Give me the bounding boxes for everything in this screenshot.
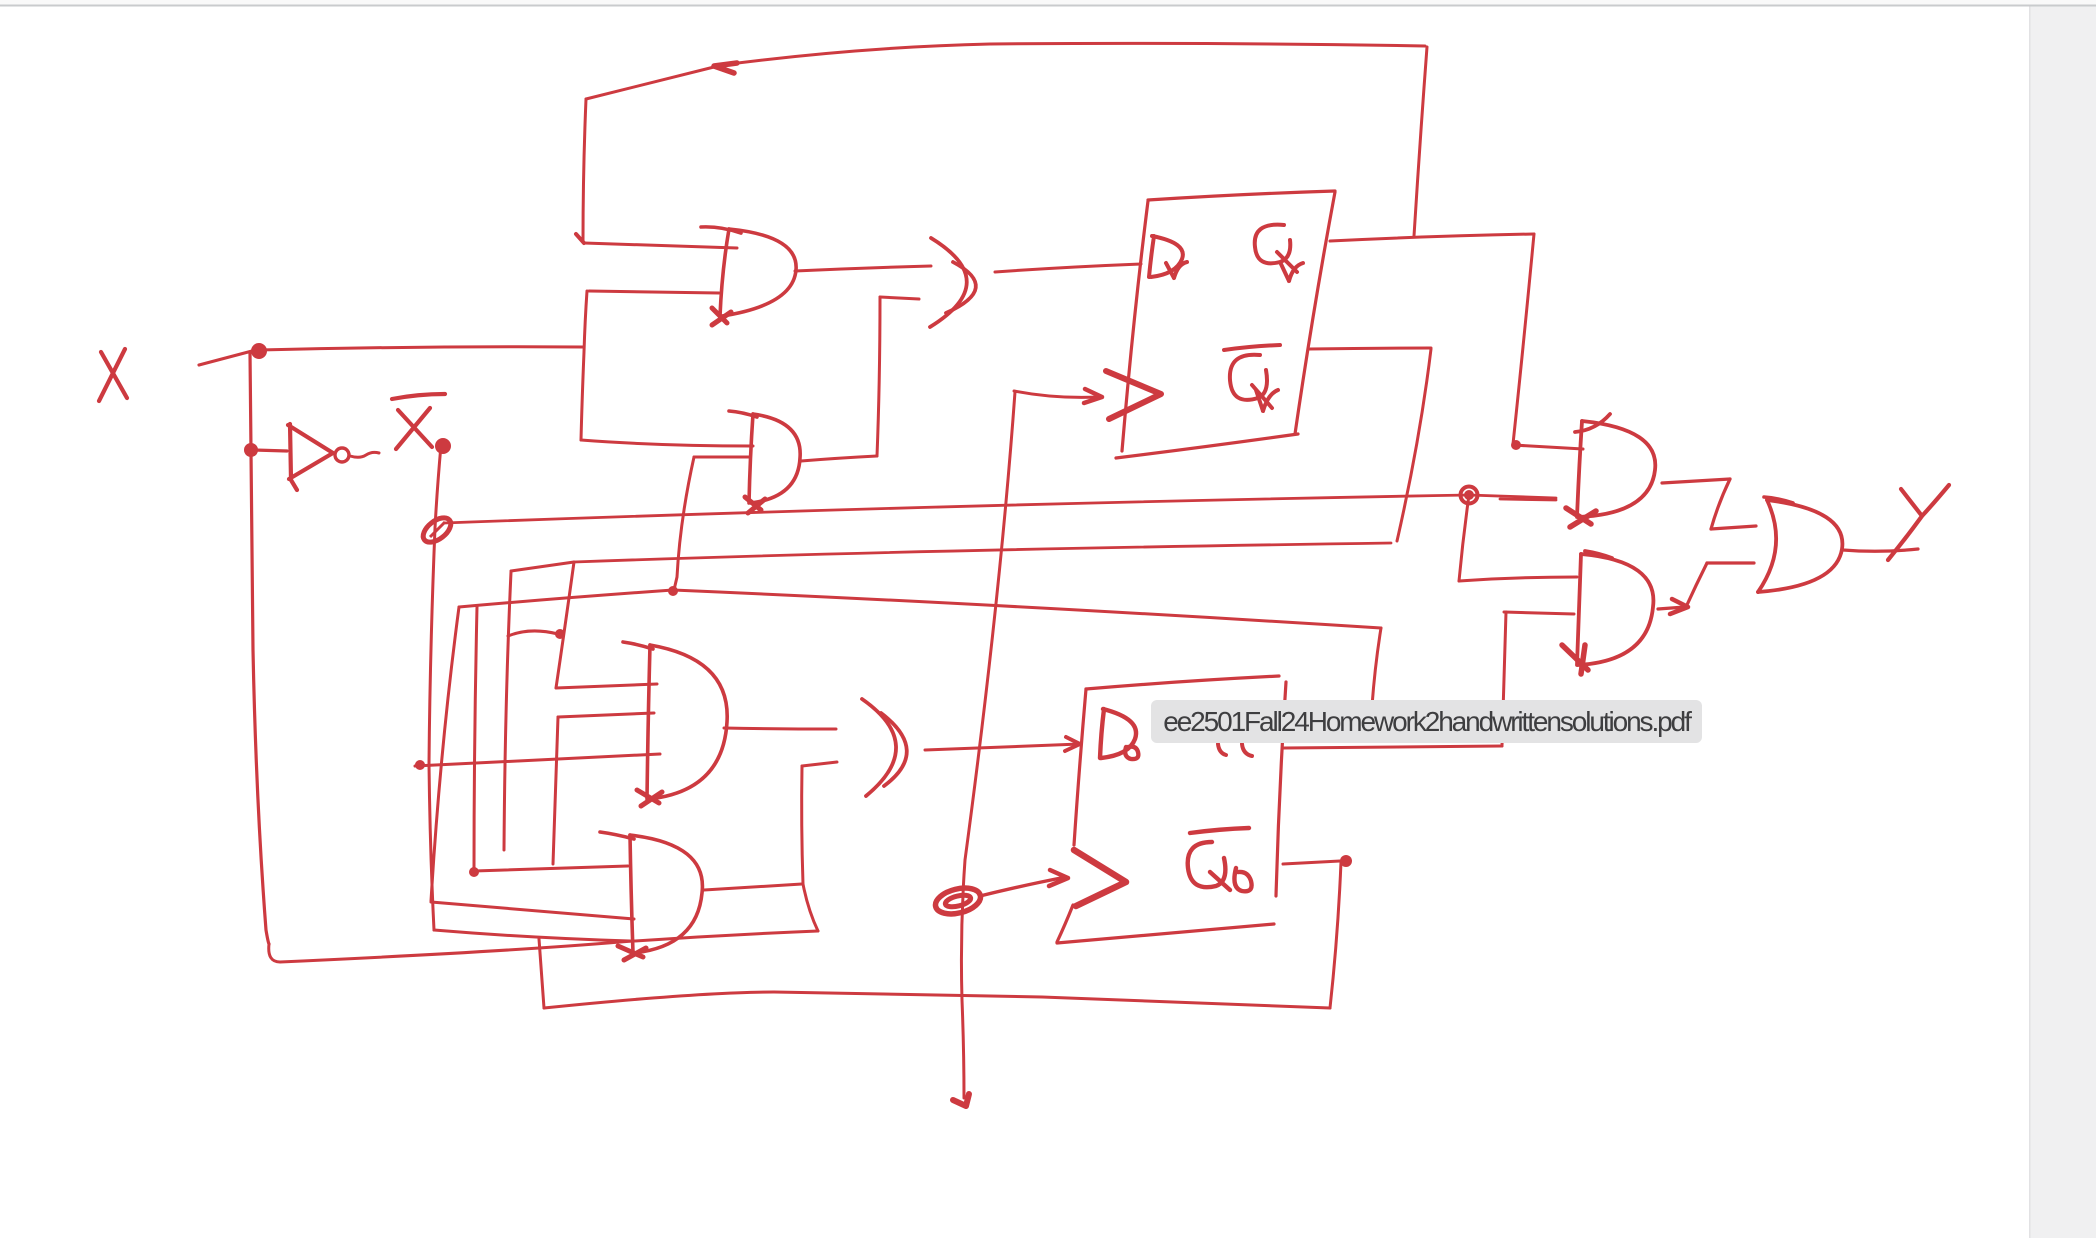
and-gate ANDB bottom arrow: [618, 946, 646, 960]
wire X input tick: [199, 351, 252, 365]
flip-flop FFB bottom edge: [1057, 924, 1274, 943]
wire H5 ANDB upper input: [474, 866, 628, 871]
and-gate ANDR2 bar: [1577, 554, 1581, 665]
or-gate OR1 bar: [720, 229, 729, 316]
flip-flop FFA left edge: [1122, 201, 1148, 451]
flip-flop FFB top edge: [1086, 676, 1279, 689]
wire Xbar vertical: [429, 445, 441, 930]
and-gate ANDA bottom arrow: [637, 790, 662, 806]
wire QB riser: [1502, 612, 1506, 746]
node Xbar label: [392, 394, 445, 449]
inverter U1 bubble: [335, 448, 349, 462]
node inverter input dot: [244, 443, 258, 457]
wire FFB clock arrowhead: [1049, 870, 1068, 886]
node QA corner dot: [1511, 440, 1521, 450]
flip-flop FFA label QbarA: [1224, 345, 1280, 411]
wire OR3 output riser: [877, 297, 880, 456]
or-gate OR2 back arc: [930, 238, 967, 327]
wire ANDB output riser low: [803, 884, 818, 931]
flip-flop FFB label DB: [1100, 709, 1138, 759]
wire ANDR1 zig down: [1711, 479, 1730, 529]
and-gate ANDR1 bottom arrow: [1566, 508, 1596, 527]
wire QA output: [1330, 234, 1534, 241]
wire ANDR1 lower input tick: [1500, 499, 1556, 500]
wire FFB clock input: [980, 877, 1066, 896]
wire OR1 output: [795, 266, 931, 271]
wire H2 long: [459, 590, 1381, 628]
wire top feedback drop: [1414, 47, 1427, 236]
wire ANDR1 zig right: [1711, 526, 1756, 529]
node X input label: [99, 349, 127, 401]
wire OR2 output to DA: [995, 264, 1141, 272]
wire Hb drop to ANDA: [556, 562, 574, 688]
wire OR3 riser stub: [880, 297, 919, 299]
wire Ha right stub: [1469, 495, 1556, 498]
and-gate ANDR1 top hook: [1575, 414, 1610, 432]
wire QB output: [1283, 746, 1502, 748]
wire S2 to ANDB: [434, 930, 630, 941]
wire Ha long: [444, 495, 1469, 523]
wire ANDR1 output: [1662, 479, 1730, 483]
wire clock end foot: [953, 1094, 969, 1106]
and-gate ANDA bar: [647, 645, 650, 799]
wire X horizontal: [259, 347, 584, 350]
wire bottom2 riser: [1330, 862, 1341, 1008]
wire OR4 output to DB: [925, 744, 1080, 750]
node vC dot: [469, 867, 479, 877]
node H1 blob: [415, 760, 425, 770]
wire FFA clock arrowhead: [1084, 389, 1102, 403]
wire OROUT output: [1843, 549, 1918, 551]
wire ANDR1 upper input: [1513, 445, 1583, 449]
wire OR3 upper input: [694, 456, 749, 459]
node blob 560-634: [555, 629, 565, 639]
wire bottom2 long: [544, 992, 1330, 1008]
wire H2 drop right: [1372, 628, 1381, 706]
flip-flop FFA top edge: [1148, 191, 1335, 200]
node oval junction on Xbar: [419, 513, 455, 547]
wire ANDA output: [724, 728, 836, 729]
node clock oval junction: [933, 884, 983, 918]
flip-flop FFA right edge: [1295, 192, 1335, 434]
and-gate ANDA top hook: [623, 642, 653, 649]
wire X to OR3 vertical: [581, 291, 587, 440]
wire OR1 upper vertical: [583, 99, 586, 241]
flip-flop FFB clock wedge: [1074, 850, 1126, 906]
wire OR1 upper vertical flick: [576, 234, 584, 243]
flip-flop FFB label QB tips: [1218, 744, 1252, 756]
and-gate ANDA arc: [649, 645, 727, 799]
wire vB vertical: [431, 607, 459, 901]
flip-flop FFA clock wedge: [1106, 371, 1161, 419]
node Y label: [1888, 485, 1949, 560]
node X junction dot: [251, 343, 267, 359]
or-gate OR3 bar: [749, 414, 753, 503]
flip-flop FFA label DA: [1149, 236, 1187, 278]
wire ANDR2 output: [1658, 607, 1685, 609]
and-gate ANDR2 bottom arrow: [1562, 645, 1588, 674]
wire ANDA lower input: [558, 713, 654, 717]
wire QA drop: [1513, 234, 1534, 444]
or-gate OR2 front arc: [946, 262, 976, 313]
and-gate ANDB bar: [630, 835, 633, 953]
wire ANDB output riser: [802, 766, 803, 884]
and-gate ANDR1 arc: [1578, 421, 1655, 517]
or-gate OR3 top hook: [729, 411, 757, 417]
wire DB input arrowhead: [1065, 737, 1080, 751]
wire S1: [431, 902, 634, 919]
or-gate OROUT bulge arc: [1758, 500, 1842, 592]
wire QbarA output: [1309, 348, 1431, 349]
flip-flop FFB label QbarB: [1188, 828, 1252, 891]
wire FFA clock input: [1014, 391, 1099, 397]
or-gate OR1 bottom arrow: [712, 308, 731, 325]
wire OR1 upper input: [584, 243, 737, 248]
wire ANDA upper input: [556, 684, 657, 688]
wire ANDB output: [704, 884, 802, 890]
or-gate OR1 arc: [722, 229, 796, 316]
wire X left vertical: [250, 352, 269, 944]
wire v3 hook: [508, 631, 558, 636]
wire Ha drop: [1459, 495, 1469, 581]
wire H1: [415, 754, 660, 766]
wire OR3 lower input: [581, 440, 753, 446]
wire v3 vertical: [504, 572, 511, 850]
wire Hb left stub: [511, 562, 574, 571]
or-gate OR3 arc: [751, 414, 800, 503]
flip-flop FFB left edge upper: [1074, 689, 1086, 845]
flip-flop FFA label QA: [1255, 225, 1303, 281]
wire bottom left long: [269, 931, 818, 962]
flip-flop FFB left edge lower: [1057, 905, 1073, 942]
or-gate OR1 top hook: [701, 227, 741, 233]
wire OR3 upper input drop: [674, 457, 694, 590]
wire inverter input: [253, 450, 287, 451]
and-gate ANDR1 bar: [1577, 421, 1582, 517]
wire ANDR2 zig up: [1686, 563, 1707, 607]
node Xbar junction dot: [435, 438, 451, 454]
svg-text:ee2501Fall24Homework2handwritt: ee2501Fall24Homework2handwrittensolution…: [1163, 706, 1692, 737]
node blob 673-591: [668, 586, 678, 596]
and-gate ANDR2 top hook: [1585, 551, 1612, 558]
wire ANDR2 upper input: [1459, 577, 1577, 581]
browser top bar: [0, 0, 2096, 5]
flip-flop FFB right edge: [1276, 682, 1286, 896]
inverter U1 triangle: [288, 424, 333, 490]
or-gate OROUT top tick: [1764, 497, 1793, 503]
wire OR3 output: [801, 456, 877, 461]
and-gate ANDR2 arc: [1578, 554, 1653, 665]
and-gate ANDB arc: [630, 835, 702, 953]
wire top feedback: [586, 43, 1425, 99]
flip-flop FFA bottom edge: [1116, 434, 1298, 458]
wire S2 drop: [539, 939, 544, 1008]
wire vD vertical: [553, 717, 558, 864]
node QbarB dot: [1340, 855, 1352, 867]
wire top feedback arrowhead: [714, 63, 737, 73]
or-gate OROUT back arc: [1758, 500, 1776, 592]
wire Hb long: [574, 543, 1391, 562]
wire vC vertical: [474, 607, 477, 871]
node Ha junction dot: [1461, 487, 1478, 504]
and-gate ANDB top hook: [600, 832, 634, 839]
wire ANDR2 lower input: [1504, 612, 1574, 614]
wire clock vertical: [961, 392, 1015, 1098]
wire ANDB riser stub: [802, 762, 837, 766]
wire OR1 lower input: [589, 291, 719, 293]
or-gate OR3 bottom arrow: [745, 497, 765, 513]
or-gate OR4 back arc: [862, 699, 896, 796]
tooltip filename: [1151, 700, 1702, 743]
wire QbarA drop: [1397, 349, 1431, 541]
wire QbarB output stub: [1283, 861, 1340, 864]
wire ANDR2 zig right: [1707, 561, 1754, 564]
right scrollbar strip: [2030, 7, 2096, 1238]
wire ANDR2 output arrowhead: [1670, 599, 1688, 614]
or-gate OR4 front arc: [881, 713, 907, 786]
wire inverter output squiggle: [350, 452, 379, 457]
